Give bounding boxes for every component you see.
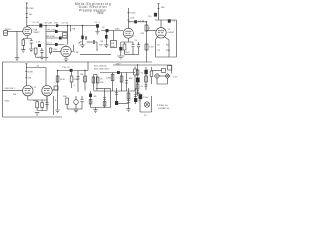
pot P2 knob [81,36,84,40]
capacitor C16 [80,96,83,109]
out chain 1 [90,91,92,108]
V5 out [52,89,57,91]
capacitor C9 drop [121,42,125,47]
tube V1B cathode [65,57,67,59]
PI vert 2 [96,75,98,91]
resistor R22 [96,77,99,83]
drop x78 [77,71,79,93]
PI rail tie [87,62,89,71]
capacitor C5 [96,24,99,27]
cathode bus [125,54,139,56]
capacitor C19 [127,101,130,103]
wire grid entry [7,30,23,32]
box R9 [111,41,117,48]
ground [35,113,39,116]
capacitor C9b [131,42,134,55]
winding blob 2 [139,94,143,99]
svg-text:100K: 100K [130,13,136,15]
resistor R13 [123,42,126,55]
jack J1 [4,31,8,36]
svg-text:R6 250K: R6 250K [47,36,56,38]
resistor R15 [145,44,148,50]
psu col 2 [128,88,130,109]
B+ top wire [113,65,172,74]
tube V3 internals [158,31,164,35]
diode D2 cross [166,75,169,78]
svg-text:C3 .1: C3 .1 [47,42,53,44]
resistor R20 [70,76,73,82]
ladder left rail [45,26,47,58]
grid chain 2 [25,64,27,86]
capacitor C1 [39,24,42,28]
svg-text:10K: 10K [130,18,134,20]
node tick C [26,17,28,19]
border left [2,62,4,117]
svg-text:6V6GT: 6V6GT [168,32,176,34]
node tick B [26,13,28,15]
svg-text:410V: 410V [116,63,122,65]
pot P2 wiper [79,41,82,43]
svg-text:1.5K: 1.5K [149,47,154,49]
PI vert 1 [93,75,95,91]
node tick A [26,7,28,9]
svg-text:GND 1M .1: GND 1M .1 [5,88,17,90]
ground wide [117,56,124,59]
B+ rail left [128,21,146,23]
svg-text:1M: 1M [28,78,31,80]
rung 2 wire [46,37,68,39]
ground [95,32,99,35]
out chain 3 [110,89,112,108]
out box [54,86,58,90]
svg-text:120V: 120V [143,97,149,99]
drop x71.5 [71,72,73,76]
box x1 [136,70,139,75]
svg-text:1M: 1M [111,46,114,48]
ladder right rail [67,26,69,45]
ground [104,45,108,48]
svg-text:1M: 1M [13,94,16,96]
svg-text:1.5K: 1.5K [36,42,41,44]
tube V1B internals [63,50,69,54]
capacitor C3 [30,39,33,49]
tube V5 [42,86,52,96]
diode link [160,75,165,77]
PI top bus [94,74,98,76]
tube V1B grid [53,51,61,53]
svg-text:R22 220K 410V: R22 220K 410V [94,68,110,70]
plate rail [27,26,97,27]
ground [64,59,68,62]
cathode bus 2 [28,96,47,100]
ground [74,110,78,113]
title block [75,2,111,15]
svg-text:6.3VAC 50-: 6.3VAC 50- [157,104,168,107]
grid wire V3 [147,30,157,32]
psu col 1 [116,88,118,104]
tube V1B out [71,45,73,52]
box o2 [103,102,106,107]
tube V2A internals [125,31,131,35]
svg-text:6.3V: 6.3V [173,77,178,79]
svg-text:22K: 22K [100,82,104,84]
svg-text:75W: 75W [97,11,105,15]
ground [40,57,44,60]
grid pot drop [105,32,107,45]
svg-text:12AX7: 12AX7 [33,31,40,34]
resistor R21 [92,77,95,83]
lamp cross [145,103,149,107]
svg-text:8Ω: 8Ω [166,45,169,47]
junction dot rail 3 [82,25,83,26]
left PI drop [57,71,59,110]
node tick d3 [25,77,27,79]
out bottom bus [91,107,111,109]
border bottom [3,116,63,118]
svg-text:68K: 68K [99,45,103,47]
junction dot screen [146,21,147,22]
node tick B+ [158,3,160,5]
svg-text:5%: 5% [148,16,151,18]
cathode wires [23,36,31,39]
svg-text:C2 .02: C2 .02 [62,23,69,25]
screen drop [146,22,148,62]
tube V1B plate [65,45,67,47]
blob o1 [89,94,92,98]
svg-text:1M: 1M [80,74,83,76]
wire r6 down [36,54,42,57]
pot P3 stem [75,96,77,109]
coupling wire [101,30,123,32]
psu bus [117,103,129,105]
svg-text:GND: GND [5,101,10,103]
wiper out wire [87,41,94,43]
capacitor C13 [76,77,79,80]
svg-text:R21 220K B+: R21 220K B+ [94,65,108,67]
tube V1A [23,27,32,36]
fuse F1 lead [152,70,162,72]
tube V5 internals [44,89,50,93]
xfmr col left [137,64,139,96]
node tick d1 [25,63,27,65]
node dot [96,49,97,50]
ground [93,110,97,113]
svg-text:1.5K: 1.5K [74,52,79,54]
resistor R24 [120,76,123,82]
rung 3 wire [46,44,65,46]
ground [21,50,25,53]
tube V3 left lead [156,37,158,57]
diode D2 [165,74,170,79]
node tick d2 [25,71,27,73]
wire grid chain [26,3,28,27]
B+ feed [158,4,160,21]
drop x70.5 [70,26,72,32]
PI out wire [100,72,135,74]
fuse F2 box [168,66,172,71]
winding blob 3 [144,70,147,74]
svg-text:220K: 220K [106,78,112,80]
PI bottom bus [94,90,136,92]
capacitor C17 [103,98,106,100]
svg-text:R2 22K: R2 22K [45,23,53,25]
tube V3 right lead [165,37,170,57]
resistor R26 [66,98,69,105]
svg-text:C7 16: C7 16 [138,20,145,22]
winding marks 2 [145,85,148,87]
tube V4 internals [25,89,31,93]
bypass blob [38,44,41,47]
pot P1 mark [63,34,66,36]
resistor R7 [49,48,51,55]
svg-text:1M: 1M [100,41,103,43]
mid bus [80,54,111,56]
capacitor C5b [93,40,97,50]
capacitor C4c [55,43,58,46]
bottom bus V3 [156,56,177,58]
pot P1 [63,33,67,38]
ground [15,58,19,61]
box x3 [145,76,148,82]
capacitor C9 [119,47,122,51]
drop x112.5 [112,73,114,92]
ground [126,109,130,112]
capacitor C6 [106,29,109,32]
capacitor C18 [115,93,118,95]
PI rail [58,70,89,72]
wire shield drop [16,31,18,57]
resistor R25 [134,69,137,75]
out bus gnd stem [95,108,97,110]
tube V1B [61,46,71,56]
svg-text:V1A: V1A [33,28,38,31]
grid pot knob [105,35,108,39]
svg-text:25uF: 25uF [125,52,131,54]
svg-text:C5 .1: C5 .1 [95,22,101,24]
tube V4 [23,86,33,96]
svg-text:C10 .02: C10 .02 [62,67,70,69]
resistor R28 [150,67,153,84]
junction dot pi rail b [84,70,85,71]
B+ rail right [155,19,177,21]
drop x121.5 [121,73,123,92]
drop x126.5 [126,73,128,92]
jack J1 inner [4,32,8,34]
ground [44,58,48,61]
svg-text:470K: 470K [28,72,34,74]
blob psu3 [134,98,137,102]
wire C9 down [120,51,122,56]
svg-text:100K: 100K [115,29,121,31]
ground bus 2 [37,96,47,111]
side vert [53,96,55,115]
node tick p1 [127,12,129,14]
box o1 [89,99,92,104]
svg-text:220K: 220K [60,79,66,81]
wire r18 [36,100,38,111]
capacitor C4a [55,30,58,33]
out chain 2 [104,89,106,108]
capacitor C8 [168,19,171,22]
branch wire [26,68,46,87]
input wire 2 [3,89,23,91]
wire r20 [71,82,73,88]
resistor R18 [36,102,39,108]
svg-text:120VAC 60-: 120VAC 60- [158,107,170,110]
svg-text:INPUT: INPUT [5,29,12,31]
mains loop [140,96,152,112]
node tick p2 [127,19,129,21]
ground [55,110,59,113]
box R9 drop [113,31,115,41]
wire c5 [97,28,99,32]
junction dot rail 2 [67,25,68,26]
tube V3 plate [160,20,162,28]
right drop [176,20,178,57]
pot P2 drop [82,26,84,45]
tube V2A plate [127,8,129,28]
svg-text:V1B: V1B [53,49,58,51]
svg-text:C1 .02: C1 .02 [33,22,40,24]
wire r26 [66,105,68,110]
resistor R19 [56,76,59,82]
fuse F1 box [162,69,166,73]
wire r18b [41,100,43,111]
node tick B2 [158,8,160,10]
drop x135 [134,67,136,70]
junction dot pi rail [57,70,58,71]
tube V2A [123,28,133,38]
capacitor C11 [45,100,48,109]
capacitor C3b [40,48,43,55]
wire divider [3,61,153,63]
tube V3 [156,28,166,38]
resistor R12 [145,25,148,31]
box x2 [136,84,139,89]
capacitor C14 [117,71,120,74]
capacitor C10b [137,42,140,55]
winding blob 1 [136,78,140,83]
winding marks [136,91,139,94]
capacitor C5a bars [85,36,86,40]
drop x85 [84,71,86,91]
capacitor C7 [134,20,137,23]
capacitor C20 [134,95,137,97]
ground bus 3 [67,108,82,110]
V2 cathode [125,38,134,42]
svg-text:56K: 56K [129,78,133,80]
ground [80,45,84,48]
svg-text:8Ω: 8Ω [94,96,97,98]
lamp [144,102,149,107]
node tick top [26,2,28,4]
resistor R11 [154,13,157,17]
resistor R5 [22,39,25,50]
resistor R6 [34,48,37,54]
svg-text:10K: 10K [161,7,165,9]
svg-text:470K: 470K [29,8,35,10]
xfmr col right [145,67,147,90]
psu col 3 [135,88,137,104]
resistor R27 [127,93,130,99]
diode D1 drop [157,79,168,85]
junction blob [56,24,58,27]
diode D1 dot [156,75,157,76]
ground [29,49,33,52]
capacitor C4b [59,37,62,40]
capacitor C15 [125,81,128,84]
resistor R20b [84,76,87,82]
junction dot rail 1 [45,25,46,26]
capacitor C12 [70,69,73,72]
pot P3 [74,100,79,105]
svg-text:1M: 1M [29,14,32,16]
diode D1 [154,74,159,79]
out top wire [96,88,111,90]
tube V1A internals [25,29,30,33]
resistor R18b [41,103,44,108]
rung 1 wire [46,31,68,33]
blob psu1 [115,101,118,105]
resistor R23 [111,75,114,81]
wire r25 [134,75,136,91]
